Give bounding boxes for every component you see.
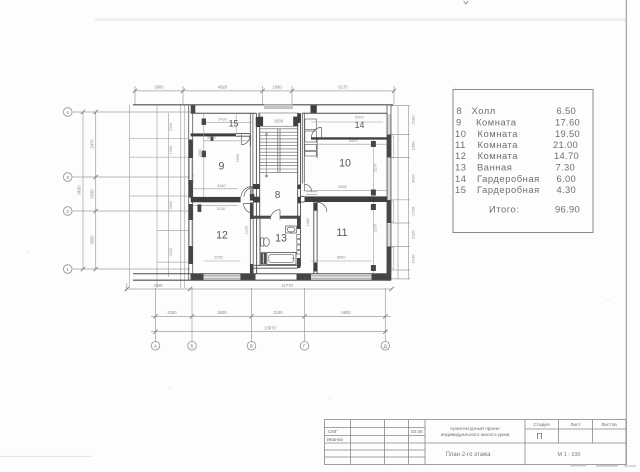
svg-text:14: 14 xyxy=(455,173,467,184)
svg-text:13: 13 xyxy=(455,162,467,173)
hall/room13 wall xyxy=(253,216,270,219)
svg-text:5000: 5000 xyxy=(355,115,364,120)
svg-text:3: 3 xyxy=(66,175,69,180)
top dim ticks xyxy=(133,89,137,93)
svg-text:Гардеробная: Гардеробная xyxy=(477,184,540,195)
svg-text:14.70: 14.70 xyxy=(554,150,579,161)
axis extensions down xyxy=(155,288,157,341)
svg-text:Комната: Комната xyxy=(478,139,519,150)
svg-text:Гардеробная: Гардеробная xyxy=(477,173,540,184)
bathroom right wall piers xyxy=(297,218,301,230)
svg-text:П: П xyxy=(536,431,542,441)
right wall pier 3 xyxy=(387,246,391,274)
svg-text:9630: 9630 xyxy=(77,185,82,195)
svg-text:4: 4 xyxy=(66,110,69,115)
axis 4 line xyxy=(72,111,190,113)
wall room15/room9 xyxy=(191,133,236,136)
svg-text:03.05: 03.05 xyxy=(411,429,423,434)
svg-text:5900: 5900 xyxy=(349,138,358,143)
bottom wall window room 12 xyxy=(204,275,241,278)
right wall pier 1 xyxy=(387,134,391,157)
svg-text:3430: 3430 xyxy=(217,183,226,188)
svg-text:Комната: Комната xyxy=(478,150,519,161)
bathtub xyxy=(261,252,267,264)
left wall window room 9 xyxy=(189,158,192,180)
closet wall room 10 xyxy=(316,137,318,158)
scan noise bottom right xyxy=(570,465,586,467)
svg-text:1000: 1000 xyxy=(274,118,284,123)
axis 2 line xyxy=(72,210,190,212)
svg-text:6.00: 6.00 xyxy=(557,173,576,184)
wall room14/room10 xyxy=(311,137,387,139)
axis circle В xyxy=(247,342,256,351)
axis circle 4 xyxy=(63,108,72,274)
stair bay window gray band xyxy=(264,105,293,109)
svg-text:2550: 2550 xyxy=(214,254,223,259)
room 15 top wall inner xyxy=(191,112,257,114)
svg-text:Листов: Листов xyxy=(601,422,617,428)
svg-text:8: 8 xyxy=(275,190,281,201)
svg-text:7.30: 7.30 xyxy=(556,162,575,173)
scan specks xyxy=(27,251,29,253)
top dim texts xyxy=(154,85,348,90)
left wall pier lower xyxy=(188,246,192,264)
door hall->room10 xyxy=(304,184,311,191)
svg-text:2100: 2100 xyxy=(168,122,173,131)
svg-text:2230: 2230 xyxy=(244,225,249,234)
svg-text:3500: 3500 xyxy=(168,200,173,209)
svg-text:6170: 6170 xyxy=(338,85,348,90)
room 11 left wall xyxy=(313,202,315,274)
svg-text:3040: 3040 xyxy=(411,173,416,183)
svg-text:2270: 2270 xyxy=(373,163,378,172)
left wall window room 12 xyxy=(189,220,192,246)
axis circle Д xyxy=(381,342,390,351)
svg-text:План 2-го этажа: План 2-го этажа xyxy=(446,452,491,458)
svg-text:В: В xyxy=(250,344,253,349)
right wall window room 14 xyxy=(388,114,390,134)
svg-text:10: 10 xyxy=(339,158,351,170)
axis 3 line xyxy=(72,176,190,178)
bottom wall pier D xyxy=(372,274,392,280)
mid wall left segment (9/12) xyxy=(191,197,237,202)
vent box top wall room 14 xyxy=(311,105,317,113)
svg-text:15: 15 xyxy=(455,184,467,195)
axis circle А xyxy=(151,342,389,351)
extension lines up from building xyxy=(134,86,136,105)
paper top edge shadow xyxy=(95,19,627,21)
door room10->room14 xyxy=(312,127,322,137)
chain tick blocks xyxy=(202,119,206,126)
left exterior wall lines xyxy=(188,105,190,280)
svg-text:13: 13 xyxy=(275,233,287,245)
stair shaft right wall xyxy=(297,113,299,217)
svg-text:5800: 5800 xyxy=(341,310,351,315)
room 14 top wall inner xyxy=(302,112,387,114)
svg-text:Архитектурный проект: Архитектурный проект xyxy=(450,425,501,432)
svg-text:2: 2 xyxy=(66,209,69,214)
bottom wall window room 11 xyxy=(311,275,372,278)
right wall pier 2 xyxy=(387,200,391,223)
washer boxes on room13 right wall xyxy=(297,235,301,255)
left chain dim line xyxy=(95,112,97,269)
svg-text:4.30: 4.30 xyxy=(557,184,576,195)
svg-text:2005: 2005 xyxy=(153,283,163,288)
svg-text:2270: 2270 xyxy=(373,223,378,232)
svg-text:9: 9 xyxy=(456,117,462,128)
svg-text:10: 10 xyxy=(455,128,467,139)
stair shaft left wall piers xyxy=(256,117,260,127)
hall left wall lower / room13 left wall xyxy=(256,218,258,274)
svg-text:6.50: 6.50 xyxy=(557,105,576,116)
svg-text:2200: 2200 xyxy=(167,310,177,315)
scan speck top xyxy=(464,1,469,4)
room 15 closet divider line xyxy=(235,113,237,133)
svg-text:8: 8 xyxy=(457,105,463,116)
svg-text:1700: 1700 xyxy=(411,206,416,216)
left total dim line xyxy=(82,112,84,269)
svg-text:Г: Г xyxy=(303,344,306,349)
door room9<->room12 xyxy=(241,187,252,197)
svg-text:3500: 3500 xyxy=(90,235,95,245)
axis circle Б xyxy=(188,342,197,351)
svg-text:А: А xyxy=(154,344,157,349)
axis circle 1 xyxy=(63,265,72,274)
svg-text:2030: 2030 xyxy=(207,135,216,140)
svg-text:1000: 1000 xyxy=(168,145,173,154)
svg-text:2100: 2100 xyxy=(168,247,173,256)
room 12 right wall xyxy=(249,202,251,273)
mid wall door jamb xyxy=(237,197,241,202)
sheet right border xyxy=(625,0,627,466)
door room15->room9 xyxy=(242,135,250,145)
svg-text:21.00: 21.00 xyxy=(553,139,578,150)
wardrobe duct boxes xyxy=(305,119,317,156)
right wall window room 11 xyxy=(388,223,390,246)
mid wall right segment (10/11) xyxy=(305,196,388,202)
svg-text:4820: 4820 xyxy=(218,85,228,90)
svg-text:Комната: Комната xyxy=(476,117,517,128)
svg-text:14: 14 xyxy=(355,120,365,130)
stair stringer xyxy=(277,129,279,173)
svg-text:2550: 2550 xyxy=(235,153,240,162)
bottom exterior wall outer xyxy=(133,279,391,281)
room13 bottom wall xyxy=(254,264,298,266)
dim row 12770 xyxy=(127,288,392,290)
bottom wall pier A xyxy=(191,274,204,280)
door hall->room9 xyxy=(244,188,253,197)
svg-text:3630: 3630 xyxy=(217,310,227,315)
svg-text:Холл: Холл xyxy=(472,105,496,116)
svg-text:М 1 : 100: М 1 : 100 xyxy=(558,452,581,458)
corridor wall right of stairs xyxy=(301,114,303,184)
svg-text:12770: 12770 xyxy=(281,283,293,288)
dim row total 13970 xyxy=(151,331,388,333)
bottom exterior wall inner xyxy=(133,273,391,275)
left wall pier mid xyxy=(188,180,192,198)
svg-text:3140: 3140 xyxy=(273,310,283,315)
bottom wall pier B xyxy=(240,274,255,280)
dim row segments xyxy=(151,315,391,317)
top dim line xyxy=(134,90,395,92)
axis circle 2 xyxy=(63,207,72,216)
svg-text:индивидуального жилого дома: индивидуального жилого дома xyxy=(441,433,510,438)
corridor lines to room 11 xyxy=(306,191,317,193)
svg-text:3600: 3600 xyxy=(154,85,164,90)
svg-text:1775: 1775 xyxy=(190,174,195,183)
top exterior wall xyxy=(133,104,393,106)
svg-text:Стадия: Стадия xyxy=(533,422,550,428)
svg-text:96.90: 96.90 xyxy=(555,204,580,215)
svg-text:5660: 5660 xyxy=(337,254,346,259)
svg-text:2140: 2140 xyxy=(411,254,416,264)
svg-text:12: 12 xyxy=(455,150,467,161)
door hall->room13 xyxy=(270,210,280,220)
svg-text:2030: 2030 xyxy=(90,189,95,199)
svg-text:1300: 1300 xyxy=(411,141,416,151)
svg-text:СМГ: СМГ xyxy=(328,429,338,434)
svg-text:2130: 2130 xyxy=(411,229,416,239)
axis circle 3 xyxy=(63,173,72,182)
interior dim texts xyxy=(207,115,364,260)
door ->room11 xyxy=(317,202,327,212)
svg-text:2180: 2180 xyxy=(411,115,416,125)
room 12 right wall piers xyxy=(250,203,254,220)
svg-text:19.50: 19.50 xyxy=(555,128,580,139)
stair up direction line xyxy=(266,133,268,177)
left dim texts (rotated) xyxy=(77,139,95,245)
svg-text:3130: 3130 xyxy=(217,206,226,211)
svg-text:12: 12 xyxy=(216,230,228,242)
svg-text:11: 11 xyxy=(455,139,466,150)
paper bottom-left edge shadow xyxy=(0,456,92,458)
top-left corner pier xyxy=(191,105,196,113)
axis 1 line xyxy=(72,268,190,270)
stair right wall piers xyxy=(297,113,300,123)
svg-text:1380: 1380 xyxy=(305,217,310,226)
svg-text:9: 9 xyxy=(219,161,225,173)
stair upper landing box xyxy=(259,113,298,126)
svg-text:3080: 3080 xyxy=(197,148,202,157)
svg-text:Ванная: Ванная xyxy=(477,162,512,173)
svg-text:2470: 2470 xyxy=(90,139,95,149)
svg-text:15: 15 xyxy=(229,119,239,129)
landing box left pier xyxy=(259,117,263,126)
svg-text:2430: 2430 xyxy=(218,117,227,122)
svg-text:Лист: Лист xyxy=(570,422,581,428)
bottom wall pier C xyxy=(297,274,312,280)
right wall window sills xyxy=(392,136,394,269)
stair shaft left wall xyxy=(255,113,257,217)
svg-text:Итого:: Итого: xyxy=(489,204,519,215)
axis circle Г xyxy=(300,342,309,351)
svg-text:Комната: Комната xyxy=(478,128,519,139)
svg-text:Иванов: Иванов xyxy=(327,437,343,442)
legend box xyxy=(453,90,593,233)
svg-text:1: 1 xyxy=(66,267,69,272)
svg-text:11: 11 xyxy=(337,227,348,239)
svg-text:5860: 5860 xyxy=(338,184,347,189)
landing box right pier xyxy=(293,117,298,126)
left wall pier upper xyxy=(188,140,192,159)
room 9 right wall lines xyxy=(249,113,251,197)
svg-text:1000: 1000 xyxy=(272,85,282,90)
door hall->room12 xyxy=(244,204,254,214)
svg-text:13970: 13970 xyxy=(264,325,276,330)
toilet xyxy=(261,238,264,246)
right exterior wall lines xyxy=(386,105,388,280)
svg-text:Д: Д xyxy=(384,344,387,349)
sink xyxy=(286,226,297,233)
svg-text:Б: Б xyxy=(191,344,194,349)
right wall window room 10 xyxy=(388,158,390,199)
svg-text:17.60: 17.60 xyxy=(555,117,580,128)
